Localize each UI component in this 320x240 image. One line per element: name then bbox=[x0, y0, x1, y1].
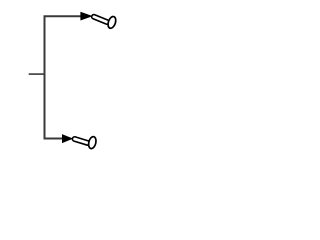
node B: bottom plug cylinder bbox=[72, 136, 90, 145]
node B: bottom arrowhead bbox=[62, 134, 73, 143]
node A: top plug end cap bbox=[107, 15, 118, 29]
node A: top plug cylinder bbox=[91, 14, 110, 25]
node A: top arrowhead bbox=[80, 12, 92, 21]
wire: left stub tick bbox=[29, 73, 45, 75]
node B: bottom plug end cap bbox=[87, 136, 97, 150]
wire: vertical bus with top and bottom branches bbox=[45, 16, 82, 138]
